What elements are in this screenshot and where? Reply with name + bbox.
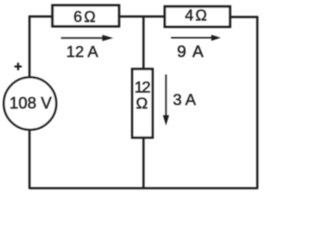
wire: R1 right to junction node B xyxy=(119,15,144,17)
voltage source V1 circle xyxy=(4,77,56,129)
svg-text:4 Ω: 4 Ω xyxy=(185,7,207,24)
polarity plus sign xyxy=(14,63,21,70)
svg-text:3 A: 3 A xyxy=(173,92,196,109)
wire: junction to R2 xyxy=(144,15,166,17)
svg-text:Ω: Ω xyxy=(136,96,148,113)
wire: source top up and right to R1 xyxy=(30,17,53,78)
wire: R2 right, down right side xyxy=(230,17,258,188)
svg-text:6 Ω: 6 Ω xyxy=(74,9,96,26)
svg-text:108 V: 108 V xyxy=(9,95,52,113)
wire: middle branch top (node B to R3) xyxy=(142,16,144,70)
svg-text:12 A: 12 A xyxy=(66,44,98,61)
wire: middle branch bottom (R3 to bottom wire) xyxy=(142,138,144,189)
current arrow I3 3 A xyxy=(163,75,169,126)
resistor R2 4 ohm box xyxy=(165,7,230,27)
wire: bottom return xyxy=(30,187,259,189)
svg-text:9 A: 9 A xyxy=(177,42,205,61)
resistor R3 12 ohm box xyxy=(132,69,152,138)
resistor R1 6 ohm box xyxy=(53,5,120,26)
wire: bottom-left up to source bottom xyxy=(28,130,30,189)
current arrow I2 9 A xyxy=(171,35,221,41)
svg-text:12: 12 xyxy=(134,79,150,96)
current arrow I1 12 A xyxy=(61,35,113,41)
